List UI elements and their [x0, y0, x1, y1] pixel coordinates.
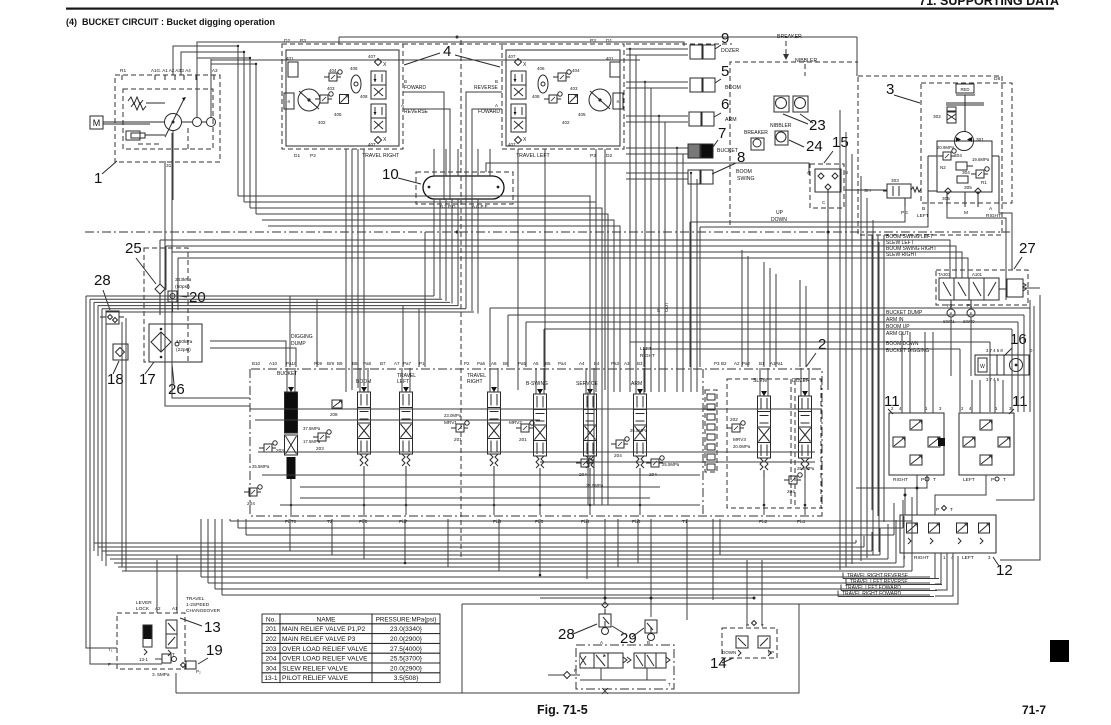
svg-text:TRAVEL RIGHT: TRAVEL RIGHT	[362, 153, 400, 159]
svg-text:202: 202	[730, 417, 738, 422]
svg-text:305: 305	[942, 196, 950, 201]
svg-text:3. 5MPa: 3. 5MPa	[152, 672, 170, 677]
pump swash arrow	[165, 99, 184, 137]
svg-text:R1: R1	[981, 180, 987, 185]
svg-text:13: 13	[204, 619, 221, 636]
svg-text:A10: A10	[269, 361, 278, 366]
svg-text:402: 402	[562, 120, 570, 125]
svg-text:D1: D1	[606, 38, 612, 44]
dozer pilot valve 14	[722, 628, 777, 658]
svg-text:201: 201	[265, 626, 276, 633]
svg-text:TA303: TA303	[938, 272, 951, 277]
svg-text:D2: D2	[284, 38, 290, 44]
svg-text:A4: A4	[579, 361, 585, 366]
svg-text:P3: P3	[714, 361, 720, 366]
check diamond P	[564, 672, 571, 679]
wire center dashed divider	[460, 40, 462, 560]
pump servo piston	[126, 131, 140, 140]
svg-text:P2: P2	[947, 303, 953, 308]
svg-text:13-1: 13-1	[139, 657, 149, 662]
svg-text:405: 405	[578, 112, 586, 117]
svg-text:2: 2	[961, 406, 964, 411]
svg-text:B5: B5	[545, 361, 551, 366]
spool travel right	[489, 368, 491, 392]
svg-text:208: 208	[330, 412, 338, 417]
svg-text:14: 14	[710, 655, 727, 672]
svg-text:RIGHT: RIGHT	[893, 477, 908, 483]
svg-text:A2: A2	[155, 606, 161, 611]
svg-text:X: X	[383, 137, 387, 143]
svg-text:71. SUPPORTING DATA: 71. SUPPORTING DATA	[919, 0, 1059, 8]
svg-text:(4) BUCKET CIRCUIT : Bucket d: (4) BUCKET CIRCUIT : Bucket digging oper…	[66, 17, 275, 27]
svg-text:26: 26	[168, 381, 185, 398]
svg-text:P: P	[936, 507, 939, 513]
svg-text:302: 302	[933, 114, 941, 119]
svg-text:3 7 4 6 8: 3 7 4 6 8	[986, 348, 1003, 353]
svg-text:1-2SPEED: 1-2SPEED	[186, 602, 210, 608]
svg-text:11: 11	[884, 393, 900, 410]
svg-text:BOOM: BOOM	[725, 85, 741, 91]
svg-text:303: 303	[891, 178, 899, 183]
block 3 inner solid box	[937, 141, 992, 192]
svg-text:25.5MPa: 25.5MPa	[630, 428, 648, 433]
valve 19 symbol	[186, 661, 196, 669]
travel pilot block 12	[900, 515, 996, 553]
svg-text:23.0{3340}: 23.0{3340}	[390, 626, 423, 633]
svg-text:A1G. A1 A2 A3G A4: A1G. A1 A2 A3G A4	[151, 68, 191, 73]
svg-text:CHANGEOVER: CHANGEOVER	[186, 608, 221, 614]
svg-text:1: 1	[94, 170, 102, 187]
wire center bundle verticals	[433, 199, 435, 296]
svg-text:B7: B7	[380, 361, 386, 366]
filter 17 diamond	[151, 332, 171, 352]
svg-text:27: 27	[1019, 240, 1036, 257]
pump regulator spring	[128, 97, 143, 104]
wire drops to bottom valves	[604, 519, 606, 602]
svg-text:UP: UP	[768, 650, 774, 655]
relief valves in main valve	[318, 433, 326, 441]
svg-text:SLEW RELIEF VALVE: SLEW RELIEF VALVE	[282, 665, 348, 672]
svg-text:1: 1	[943, 555, 946, 560]
svg-text:304: 304	[954, 153, 962, 158]
svg-text:25.5MPa: 25.5MPa	[797, 466, 815, 471]
valve 302	[947, 111, 956, 123]
svg-text:406: 406	[350, 66, 358, 71]
svg-text:201: 201	[519, 437, 527, 442]
svg-text:403: 403	[570, 86, 578, 91]
black index square	[1050, 640, 1069, 662]
svg-text:B10: B10	[252, 361, 261, 366]
wire upper mid horizontals	[238, 196, 590, 392]
svg-text:Pa5: Pa5	[518, 361, 527, 366]
svg-text:P2: P2	[464, 361, 470, 366]
svg-text:404: 404	[572, 68, 580, 73]
svg-text:17.5MPa: 17.5MPa	[303, 439, 321, 444]
svg-text:407: 407	[368, 142, 376, 147]
svg-text:20: 20	[189, 289, 206, 306]
svg-text:LEVER: LEVER	[136, 600, 152, 606]
svg-text:204: 204	[614, 453, 622, 458]
wire block3 exits	[871, 235, 873, 510]
center bypass column	[705, 390, 717, 472]
svg-text:P1: P1	[967, 303, 973, 308]
lever block risers	[156, 560, 158, 613]
svg-text:20.0{2900}: 20.0{2900}	[390, 636, 423, 643]
svg-text:LEFT: LEFT	[962, 555, 974, 561]
check valve 25	[155, 284, 165, 294]
gear pump circles	[193, 118, 202, 127]
svg-text:5: 5	[721, 63, 729, 80]
svg-text:3: 3	[988, 555, 991, 560]
wire bottom bus travel rows	[201, 576, 930, 578]
svg-text:REVERSE: REVERSE	[404, 109, 429, 115]
wire right travel box drops	[517, 149, 519, 390]
manifold 10 dashed box	[416, 172, 513, 204]
wire right bundle verticals	[839, 110, 841, 570]
relief valve table	[262, 614, 440, 683]
RED box	[956, 84, 974, 93]
valve 27 pilot ports	[947, 309, 955, 317]
solenoid valve 29 bottom	[645, 620, 657, 633]
svg-text:27.5{4000}: 27.5{4000}	[390, 646, 423, 653]
svg-text:25: 25	[125, 240, 142, 257]
bucket port 7 highlighted	[688, 144, 700, 158]
svg-text:R: R	[288, 99, 291, 104]
svg-text:B: B	[922, 206, 925, 212]
svg-text:ARM: ARM	[631, 381, 642, 387]
svg-text:203: 203	[316, 446, 324, 451]
svg-text:B4: B4	[594, 361, 600, 366]
svg-text:MRV1: MRV1	[444, 420, 457, 425]
spool travel left	[401, 368, 403, 392]
svg-text:407: 407	[368, 54, 376, 59]
svg-text:MAIN RELIEF VALVE P3: MAIN RELIEF VALVE P3	[282, 636, 356, 643]
pilot valve block 11 right	[889, 413, 944, 475]
wire port risers into valve top	[289, 296, 291, 367]
valve 20 symbol	[168, 291, 177, 302]
boom port 5	[690, 78, 702, 92]
pump unit inner dashed box	[123, 89, 213, 149]
svg-text:7: 7	[718, 125, 726, 142]
svg-text:B: B	[495, 79, 498, 84]
swing motor 301	[955, 132, 974, 151]
svg-text:N2: N2	[940, 165, 946, 170]
svg-text:20.0{2900}: 20.0{2900}	[390, 665, 423, 672]
wire right edge path	[1000, 295, 1040, 560]
svg-text:W: W	[980, 364, 985, 370]
svg-text:B: B	[845, 170, 848, 175]
solenoid valve 28 bottom	[599, 614, 611, 627]
svg-text:DIGGING: DIGGING	[291, 334, 313, 340]
wire left travel box drops	[345, 149, 347, 392]
svg-text:ARM: ARM	[725, 117, 737, 123]
svg-text:P3: P3	[590, 153, 596, 159]
svg-text:B3: B3	[637, 361, 643, 366]
svg-text:B: B	[647, 640, 650, 645]
svg-text:T: T	[950, 507, 953, 513]
check diamonds 305	[945, 188, 951, 194]
svg-text:407: 407	[508, 142, 516, 147]
solenoid selector 27 dashed box	[936, 270, 1028, 305]
travel boxes linking dash	[403, 43, 502, 45]
svg-text:A: A	[989, 206, 993, 212]
svg-text:FOWARD: FOWARD	[404, 85, 426, 91]
svg-text:25.5MPa: 25.5MPa	[252, 464, 270, 469]
svg-text:NIBBLER: NIBBLER	[770, 123, 792, 129]
spool bucket black	[286, 368, 288, 392]
svg-text:FOWARD: FOWARD	[478, 109, 500, 115]
svg-text:R: R	[617, 99, 620, 104]
svg-text:Pa10: Pa10	[286, 361, 297, 366]
boom swing port 8	[688, 170, 700, 184]
wire pump supply down	[172, 133, 250, 398]
svg-text:305: 305	[964, 185, 972, 190]
svg-text:A101: A101	[972, 272, 983, 277]
wire manifold feeds top	[433, 149, 435, 176]
wire cylinder staircase drops	[626, 48, 688, 50]
svg-text:3: 3	[939, 406, 942, 411]
svg-text:P1: P1	[419, 361, 425, 366]
header rule	[66, 8, 1054, 10]
svg-text:NAME: NAME	[316, 616, 336, 623]
svg-text:P3: P3	[590, 38, 596, 44]
travel pilot unit left-travel	[502, 44, 624, 149]
svg-text:T: T	[1003, 477, 1006, 483]
svg-text:OVER LOAD RELIEF VALVE: OVER LOAD RELIEF VALVE	[282, 656, 368, 663]
pump unit block 1 dashed outline	[115, 75, 220, 162]
valve 27 body	[939, 278, 999, 300]
svg-text:RIGHT: RIGHT	[640, 353, 655, 359]
valve half split dash-dot	[702, 369, 704, 516]
svg-text:BOOM: BOOM	[736, 169, 752, 175]
spool slew	[759, 368, 761, 396]
connector block 16	[975, 355, 1029, 375]
svg-text:Pa4: Pa4	[558, 361, 567, 366]
block 3 internal wires	[928, 155, 937, 157]
svg-text:24: 24	[806, 138, 823, 155]
svg-text:P: P	[921, 477, 924, 483]
svg-text:Br9: Br9	[327, 361, 335, 366]
wire pump top corner bundle	[173, 46, 238, 196]
svg-text:408: 408	[532, 94, 540, 99]
wire block 11 12 links	[916, 475, 918, 515]
pump output lines	[172, 131, 174, 200]
valve 27 solenoid	[1007, 279, 1023, 297]
filter block 17 outline	[149, 324, 202, 362]
wire 11 block feeds from 16	[901, 332, 903, 413]
svg-text:3 7 4 6: 3 7 4 6	[986, 377, 1000, 382]
svg-text:17: 17	[139, 371, 156, 388]
svg-text:19: 19	[206, 642, 223, 659]
svg-text:406: 406	[537, 66, 545, 71]
svg-text:LOCK: LOCK	[136, 606, 150, 612]
svg-text:10: 10	[382, 166, 399, 183]
svg-text:P₂: P₂	[196, 669, 201, 674]
svg-text:LEFT: LEFT	[397, 379, 409, 385]
svg-text:A6: A6	[491, 361, 497, 366]
svg-text:403: 403	[327, 86, 335, 91]
svg-text:203: 203	[265, 646, 276, 653]
svg-text:Pb9: Pb9	[314, 361, 323, 366]
wire bottom right big L	[462, 556, 958, 604]
svg-text:28: 28	[558, 626, 575, 643]
svg-text:19.6MPa: 19.6MPa	[972, 157, 990, 162]
wire top line long	[339, 36, 857, 38]
svg-text:A: A	[600, 640, 603, 645]
svg-text:No.: No.	[266, 616, 276, 623]
pilot boundary dash-dot line	[85, 231, 1010, 233]
spool boom swing	[535, 368, 537, 394]
svg-text:71-7: 71-7	[1022, 703, 1046, 717]
svg-text:405: 405	[334, 112, 342, 117]
svg-text:Pa6: Pa6	[477, 361, 486, 366]
spool dozer	[800, 368, 802, 396]
changeover block dashed	[576, 645, 674, 689]
svg-text:A: A	[495, 103, 498, 108]
svg-text:37.5MPa: 37.5MPa	[303, 426, 321, 431]
svg-text:A5: A5	[533, 361, 539, 366]
svg-text:304: 304	[265, 665, 276, 672]
svg-text:P3: P3	[300, 38, 306, 44]
svg-text:18: 18	[107, 371, 124, 388]
wire left bundle verticals	[86, 296, 117, 648]
arm port 6	[689, 112, 701, 126]
svg-text:202: 202	[265, 636, 276, 643]
svg-text:B8: B8	[352, 361, 358, 366]
svg-text:B9: B9	[337, 361, 343, 366]
manifold oval body	[423, 176, 504, 199]
svg-text:NIBBLER: NIBBLER	[795, 58, 817, 64]
svg-text:T: T	[172, 652, 175, 657]
changeover valve A1	[166, 620, 177, 648]
svg-text:6: 6	[721, 96, 729, 113]
svg-text:OVER LOAD RELIEF VALVE: OVER LOAD RELIEF VALVE	[282, 646, 368, 653]
svg-text:P: P	[991, 477, 994, 483]
svg-text:23.0MPa: 23.0MPa	[444, 413, 462, 418]
svg-text:Pa2: Pa2	[742, 361, 751, 366]
dozer port 9	[690, 45, 702, 59]
svg-text:P: P	[574, 668, 577, 673]
wire center to left bundle	[86, 295, 434, 297]
svg-text:DUMP: DUMP	[291, 341, 306, 347]
svg-text:D1: D1	[294, 153, 300, 159]
svg-text:204: 204	[247, 501, 255, 506]
svg-text:P: P	[746, 623, 749, 629]
svg-text:LEFT: LEFT	[963, 477, 975, 483]
svg-text:X: X	[523, 62, 527, 68]
block 3 inner dashed	[921, 83, 1012, 203]
travel pilot unit right-travel	[282, 44, 403, 149]
lever lock valve A2 black	[143, 625, 152, 639]
svg-text:204: 204	[787, 489, 795, 494]
svg-text:X: X	[383, 62, 387, 68]
staircase junction dots	[629, 48, 631, 50]
svg-text:31: 31	[166, 163, 172, 169]
valve junction dots	[290, 504, 293, 507]
svg-text:A: A	[401, 103, 404, 108]
svg-text:304: 304	[962, 170, 970, 175]
svg-text:Pa7: Pa7	[403, 361, 412, 366]
left dashed enclosure	[144, 248, 188, 362]
option area dashed enclosure	[730, 62, 858, 225]
svg-text:SH: SH	[864, 188, 871, 194]
svg-text:TRAVEL: TRAVEL	[186, 596, 205, 602]
wire bottom bus nest group A	[94, 542, 856, 544]
svg-text:343kPa: 343kPa	[175, 277, 192, 283]
pilot valve block 11 left	[959, 413, 1014, 475]
svg-text:13-1: 13-1	[264, 675, 278, 682]
svg-text:25.5MPa: 25.5MPa	[662, 462, 680, 467]
svg-text:204: 204	[265, 656, 276, 663]
svg-text:3: 3	[886, 81, 894, 98]
svg-text:BUCKET: BUCKET	[717, 148, 739, 154]
svg-text:RIGHT: RIGHT	[467, 379, 483, 385]
svg-text:SERVICE: SERVICE	[576, 381, 599, 387]
spool boom	[359, 368, 361, 392]
lever lock block dashed	[117, 613, 185, 669]
swing gear shaft	[956, 94, 975, 96]
wire travel box port to center	[403, 92, 444, 200]
svg-text:UP: UP	[776, 210, 784, 216]
wire travel label risers	[934, 553, 936, 578]
svg-text:T: T	[933, 477, 936, 483]
svg-text:B: B	[404, 79, 407, 84]
main valve internal rails	[250, 408, 822, 410]
wire bucket net lines	[490, 307, 1030, 309]
svg-text:M: M	[964, 210, 968, 216]
svg-text:PRESSURE:MPa{psi}: PRESSURE:MPa{psi}	[376, 616, 437, 623]
svg-text:RED: RED	[960, 87, 969, 92]
svg-text:20.0MPa: 20.0MPa	[733, 444, 751, 449]
svg-text:D2: D2	[606, 153, 612, 159]
svg-text:R1: R1	[120, 68, 126, 74]
svg-text:A7: A7	[394, 361, 400, 366]
svg-text:23: 23	[809, 117, 826, 134]
pilot unit block 3 outer dashed	[858, 76, 1002, 235]
svg-text:SWING: SWING	[737, 176, 755, 182]
svg-text:A3: A3	[212, 68, 218, 73]
main pump circle	[165, 114, 182, 131]
svg-text:2: 2	[818, 336, 826, 353]
svg-text:407: 407	[508, 54, 516, 59]
svg-text:LEFT: LEFT	[917, 213, 929, 219]
wire bottom bus sparse upper	[230, 520, 912, 522]
svg-text:C: C	[822, 200, 826, 205]
svg-text:MRV2: MRV2	[509, 420, 522, 425]
wire valve bottom drops	[289, 519, 291, 551]
wire manifold to block15 line	[486, 163, 809, 175]
dozer section dashed box	[795, 379, 821, 508]
svg-text:B2: B2	[721, 361, 727, 366]
svg-text:408: 408	[360, 94, 368, 99]
svg-text:BREAKER: BREAKER	[744, 130, 768, 136]
svg-text:150kPa: 150kPa	[176, 339, 193, 345]
svg-text:4: 4	[443, 43, 451, 60]
svg-text:MRV3: MRV3	[733, 437, 746, 442]
filter 18 box	[113, 344, 128, 360]
spool service	[585, 368, 587, 394]
svg-text:A2: A2	[734, 361, 740, 366]
slew section dashed box	[727, 379, 791, 508]
svg-text:A3: A3	[624, 361, 630, 366]
svg-text:RIGHT: RIGHT	[914, 555, 929, 561]
svg-text:M: M	[93, 118, 101, 128]
svg-text:DOZER: DOZER	[721, 48, 739, 54]
svg-text:PILOT RELIEF VALVE: PILOT RELIEF VALVE	[282, 675, 349, 682]
spool arm	[635, 368, 637, 394]
svg-text:T: T	[668, 682, 671, 687]
solenoid valve 28a	[106, 311, 119, 324]
